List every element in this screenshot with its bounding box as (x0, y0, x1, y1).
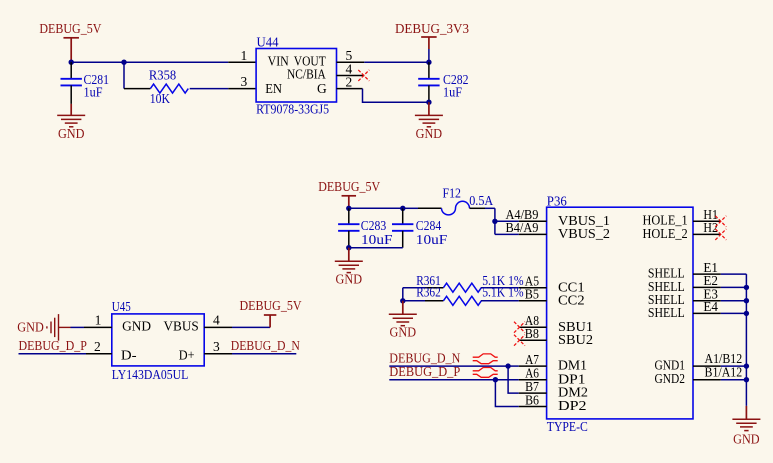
wire DP1 node down to DP2 (495, 380, 518, 407)
svg-text:DEBUG_D_N: DEBUG_D_N (231, 338, 300, 353)
junction node E4 (744, 311, 749, 316)
resistor R361 5.1K 1% (403, 287, 425, 289)
svg-text:B6: B6 (525, 392, 539, 407)
P36 pin A5 (CC1) stub (519, 287, 547, 289)
svg-text:GND: GND (17, 320, 44, 335)
wire DEBUG_D_P to U45 pin 2 (19, 353, 87, 355)
wire DEBUG_3V3 down to node (428, 49, 430, 62)
fuse F12 0.5A (403, 207, 418, 209)
svg-text:DP2: DP2 (558, 398, 587, 413)
P36 pin A1/B12 (GND1) stub (693, 365, 721, 367)
svg-text:10K: 10K (150, 91, 171, 106)
svg-text:H2: H2 (703, 220, 718, 235)
svg-text:5.1K 1%: 5.1K 1% (482, 285, 523, 300)
wire GND2 to ground bus (721, 379, 747, 381)
ground GND bar symbol (left of U45) (47, 314, 71, 341)
svg-text:LY143DA05UL: LY143DA05UL (112, 367, 189, 382)
svg-text:D-: D- (121, 348, 137, 363)
P36 pin A4/B9 (VBUS_1) stub (519, 220, 547, 222)
no-connect X on SBU2 pin B8 (514, 335, 525, 346)
P36 pin B7 (DM2) stub (519, 392, 547, 394)
svg-text:1uF: 1uF (443, 84, 462, 99)
connector P36 TYPE-C body (547, 207, 693, 419)
wire U45 pin 4 to DEBUG_5V (232, 326, 270, 328)
power port DEBUG_5V (U45) (269, 315, 271, 327)
svg-text:4: 4 (213, 313, 220, 328)
svg-text:U45: U45 (112, 299, 131, 314)
svg-text:EN: EN (265, 81, 282, 96)
U44 pin 1 stub (228, 61, 256, 63)
junction node D (C284 / F12) (400, 206, 405, 211)
U44 pin 2 stub (337, 88, 363, 90)
wire U44 pin 5 to DEBUG_3V3 node (364, 61, 429, 63)
no-connect X on HOLE_2 pin H2 (715, 229, 726, 240)
svg-text:SHELL: SHELL (648, 305, 685, 320)
svg-text:DEBUG_5V: DEBUG_5V (39, 21, 101, 36)
svg-text:2: 2 (94, 339, 101, 354)
svg-text:CC2: CC2 (558, 292, 585, 307)
U44 pin 3 stub (228, 88, 256, 90)
svg-text:1: 1 (95, 313, 102, 328)
svg-text:3: 3 (213, 339, 220, 354)
P36 pin E2 (SHELL) stub (693, 286, 721, 288)
junction node VBUS (492, 219, 497, 224)
wire C284 bottom to C283 bottom (349, 247, 403, 249)
junction node A (DEBUG_5V / C281) (69, 60, 74, 65)
junction node under C282 (426, 100, 431, 105)
junction node E3 (744, 298, 749, 303)
svg-text:VBUS: VBUS (164, 319, 199, 334)
svg-text:NC/BIA: NC/BIA (287, 67, 326, 82)
P36 pin E3 (SHELL) stub (693, 300, 721, 302)
junction node DP1 (493, 377, 498, 382)
no-connect X on SBU1 pin A8 (514, 322, 525, 333)
ground GND (under C282) (428, 102, 430, 115)
junction node GND2 (744, 377, 749, 382)
P36 pin H1 (HOLE_1) stub (693, 220, 721, 222)
ground GND (bottom right) (745, 406, 747, 419)
svg-text:0.5A: 0.5A (469, 193, 493, 208)
P36 pin A6 (DP1) stub (519, 379, 547, 381)
svg-text:GND: GND (58, 126, 85, 141)
capacitor C283 10uF (348, 208, 350, 224)
svg-text:C284: C284 (416, 218, 442, 233)
ground bus vertical wire (745, 274, 747, 406)
svg-text:VIN: VIN (268, 53, 289, 68)
ground GND (under C283) (348, 248, 350, 262)
svg-text:GND: GND (416, 126, 443, 141)
svg-text:DEBUG_5V: DEBUG_5V (240, 298, 302, 313)
wire DEBUG_D_P to DP1 (389, 379, 495, 381)
ground GND (under R362) (402, 301, 404, 315)
wire F12 to P36 VBUS pins (485, 207, 495, 209)
junction node B (121, 60, 126, 65)
wire junction B down to R358 (123, 62, 125, 88)
svg-text:GND: GND (390, 325, 417, 340)
svg-text:B4/A9: B4/A9 (506, 220, 539, 235)
svg-text:10uF: 10uF (416, 232, 448, 247)
svg-text:B8: B8 (525, 326, 539, 341)
svg-text:HOLE_2: HOLE_2 (643, 226, 688, 241)
wire U45 pin 3 (DEBUG_D_N) (232, 353, 296, 355)
junction node under C283 (346, 245, 351, 250)
svg-text:GND2: GND2 (655, 371, 686, 386)
P36 pin E1 (SHELL) stub (693, 273, 721, 275)
P36 pin A7 (DM1) stub (519, 365, 547, 367)
wire GND1 to ground bus (721, 365, 747, 367)
svg-text:DEBUG_3V3: DEBUG_3V3 (395, 21, 469, 36)
P36 pin B6 (DP2) stub (519, 406, 547, 408)
junction node DM1 (505, 363, 510, 368)
wire DEBUG_5V to junction B (71, 61, 124, 63)
wire junction B to U44 pin 1 (124, 61, 228, 63)
svg-text:1uF: 1uF (84, 84, 103, 99)
svg-text:R362: R362 (416, 285, 441, 300)
svg-text:P36: P36 (547, 194, 567, 209)
wire R361 to R362 junction (402, 288, 404, 301)
svg-text:2: 2 (345, 74, 352, 89)
op-amp U45 LY143DA05UL body (112, 314, 204, 366)
U45 pin 1 stub (84, 326, 112, 328)
svg-text:G: G (317, 81, 327, 96)
U45 pin 4 stub (204, 326, 232, 328)
svg-text:F12: F12 (443, 186, 462, 201)
svg-text:10uF: 10uF (361, 232, 393, 247)
no-connect X on HOLE_1 pin H1 (715, 216, 726, 227)
wire to VBUS_2 pin (495, 233, 519, 235)
wire DEBUG_D_N to DM1 (389, 365, 508, 367)
svg-text:DEBUG_D_P: DEBUG_D_P (19, 338, 87, 353)
differential pair marker (DEBUG_D_N) (473, 354, 498, 364)
capacitor C281 1uF (70, 62, 72, 79)
U44 pin 4 stub (no connect) (337, 74, 365, 76)
svg-text:GND: GND (336, 272, 363, 287)
svg-text:1: 1 (241, 48, 248, 63)
op-amp U44 RT9078-33GJ5 body (256, 49, 336, 103)
junction node E2 (744, 285, 749, 290)
wire SHELL E4 (721, 312, 747, 314)
no-connect X on U44 pin 4 (358, 70, 369, 81)
P36 pin B4/A9 (VBUS_2) stub (519, 233, 547, 235)
junction node DEBUG_3V3 (426, 60, 431, 65)
svg-text:VBUS_2: VBUS_2 (558, 226, 610, 241)
svg-text:RT9078-33GJ5: RT9078-33GJ5 (256, 101, 329, 116)
P36 pin B1/A12 (GND2) stub (693, 379, 721, 381)
wire SHELL E3 (721, 300, 747, 302)
P36 pin B5 (CC2) stub (519, 300, 547, 302)
wire DM1 node down to DM2 (508, 366, 519, 393)
svg-text:SBU2: SBU2 (558, 332, 593, 347)
U44 pin 5 stub (337, 61, 365, 63)
svg-text:GND: GND (733, 431, 760, 446)
svg-text:D+: D+ (179, 348, 195, 363)
svg-text:TYPE-C: TYPE-C (547, 419, 588, 434)
wire node C to node D (349, 207, 403, 209)
U45 pin 3 stub (204, 353, 232, 355)
svg-text:DEBUG_D_P: DEBUG_D_P (389, 364, 460, 379)
svg-text:GND: GND (122, 319, 151, 334)
P36 pin H2 (HOLE_2) stub (693, 233, 721, 235)
ground GND (under C281) (70, 104, 72, 116)
svg-text:R358: R358 (149, 68, 177, 83)
wire SHELL E2 (721, 286, 747, 288)
svg-text:DEBUG_5V: DEBUG_5V (318, 179, 380, 194)
capacitor C282 1uF (428, 62, 430, 79)
svg-text:B5: B5 (525, 287, 539, 302)
wire U45 pin 1 to GND symbol (71, 326, 85, 328)
wire to VBUS_1 pin (495, 220, 519, 222)
wire U44 pin 2 to GND node under C282 (363, 89, 429, 103)
P36 pin E4 (SHELL) stub (693, 312, 721, 314)
P36 pin B8 (SBU2) stub (519, 339, 547, 341)
svg-text:3: 3 (241, 74, 248, 89)
junction node C (DEBUG_5V / C283) (346, 206, 351, 211)
resistor R358 10K (124, 88, 150, 90)
wire SHELL E1 to ground bus (721, 273, 747, 275)
junction node GND1 (744, 363, 749, 368)
P36 pin A8 (SBU1) stub (519, 326, 547, 328)
svg-text:C283: C283 (361, 218, 387, 233)
U45 pin 2 stub (86, 353, 112, 355)
svg-text:E4: E4 (703, 299, 718, 314)
junction node R362/GND (400, 298, 405, 303)
svg-text:U44: U44 (257, 35, 279, 50)
capacitor C284 10uF (402, 208, 404, 224)
differential pair marker (DEBUG_D_P) (473, 368, 498, 378)
resistor R362 5.1K 1% (403, 300, 425, 302)
